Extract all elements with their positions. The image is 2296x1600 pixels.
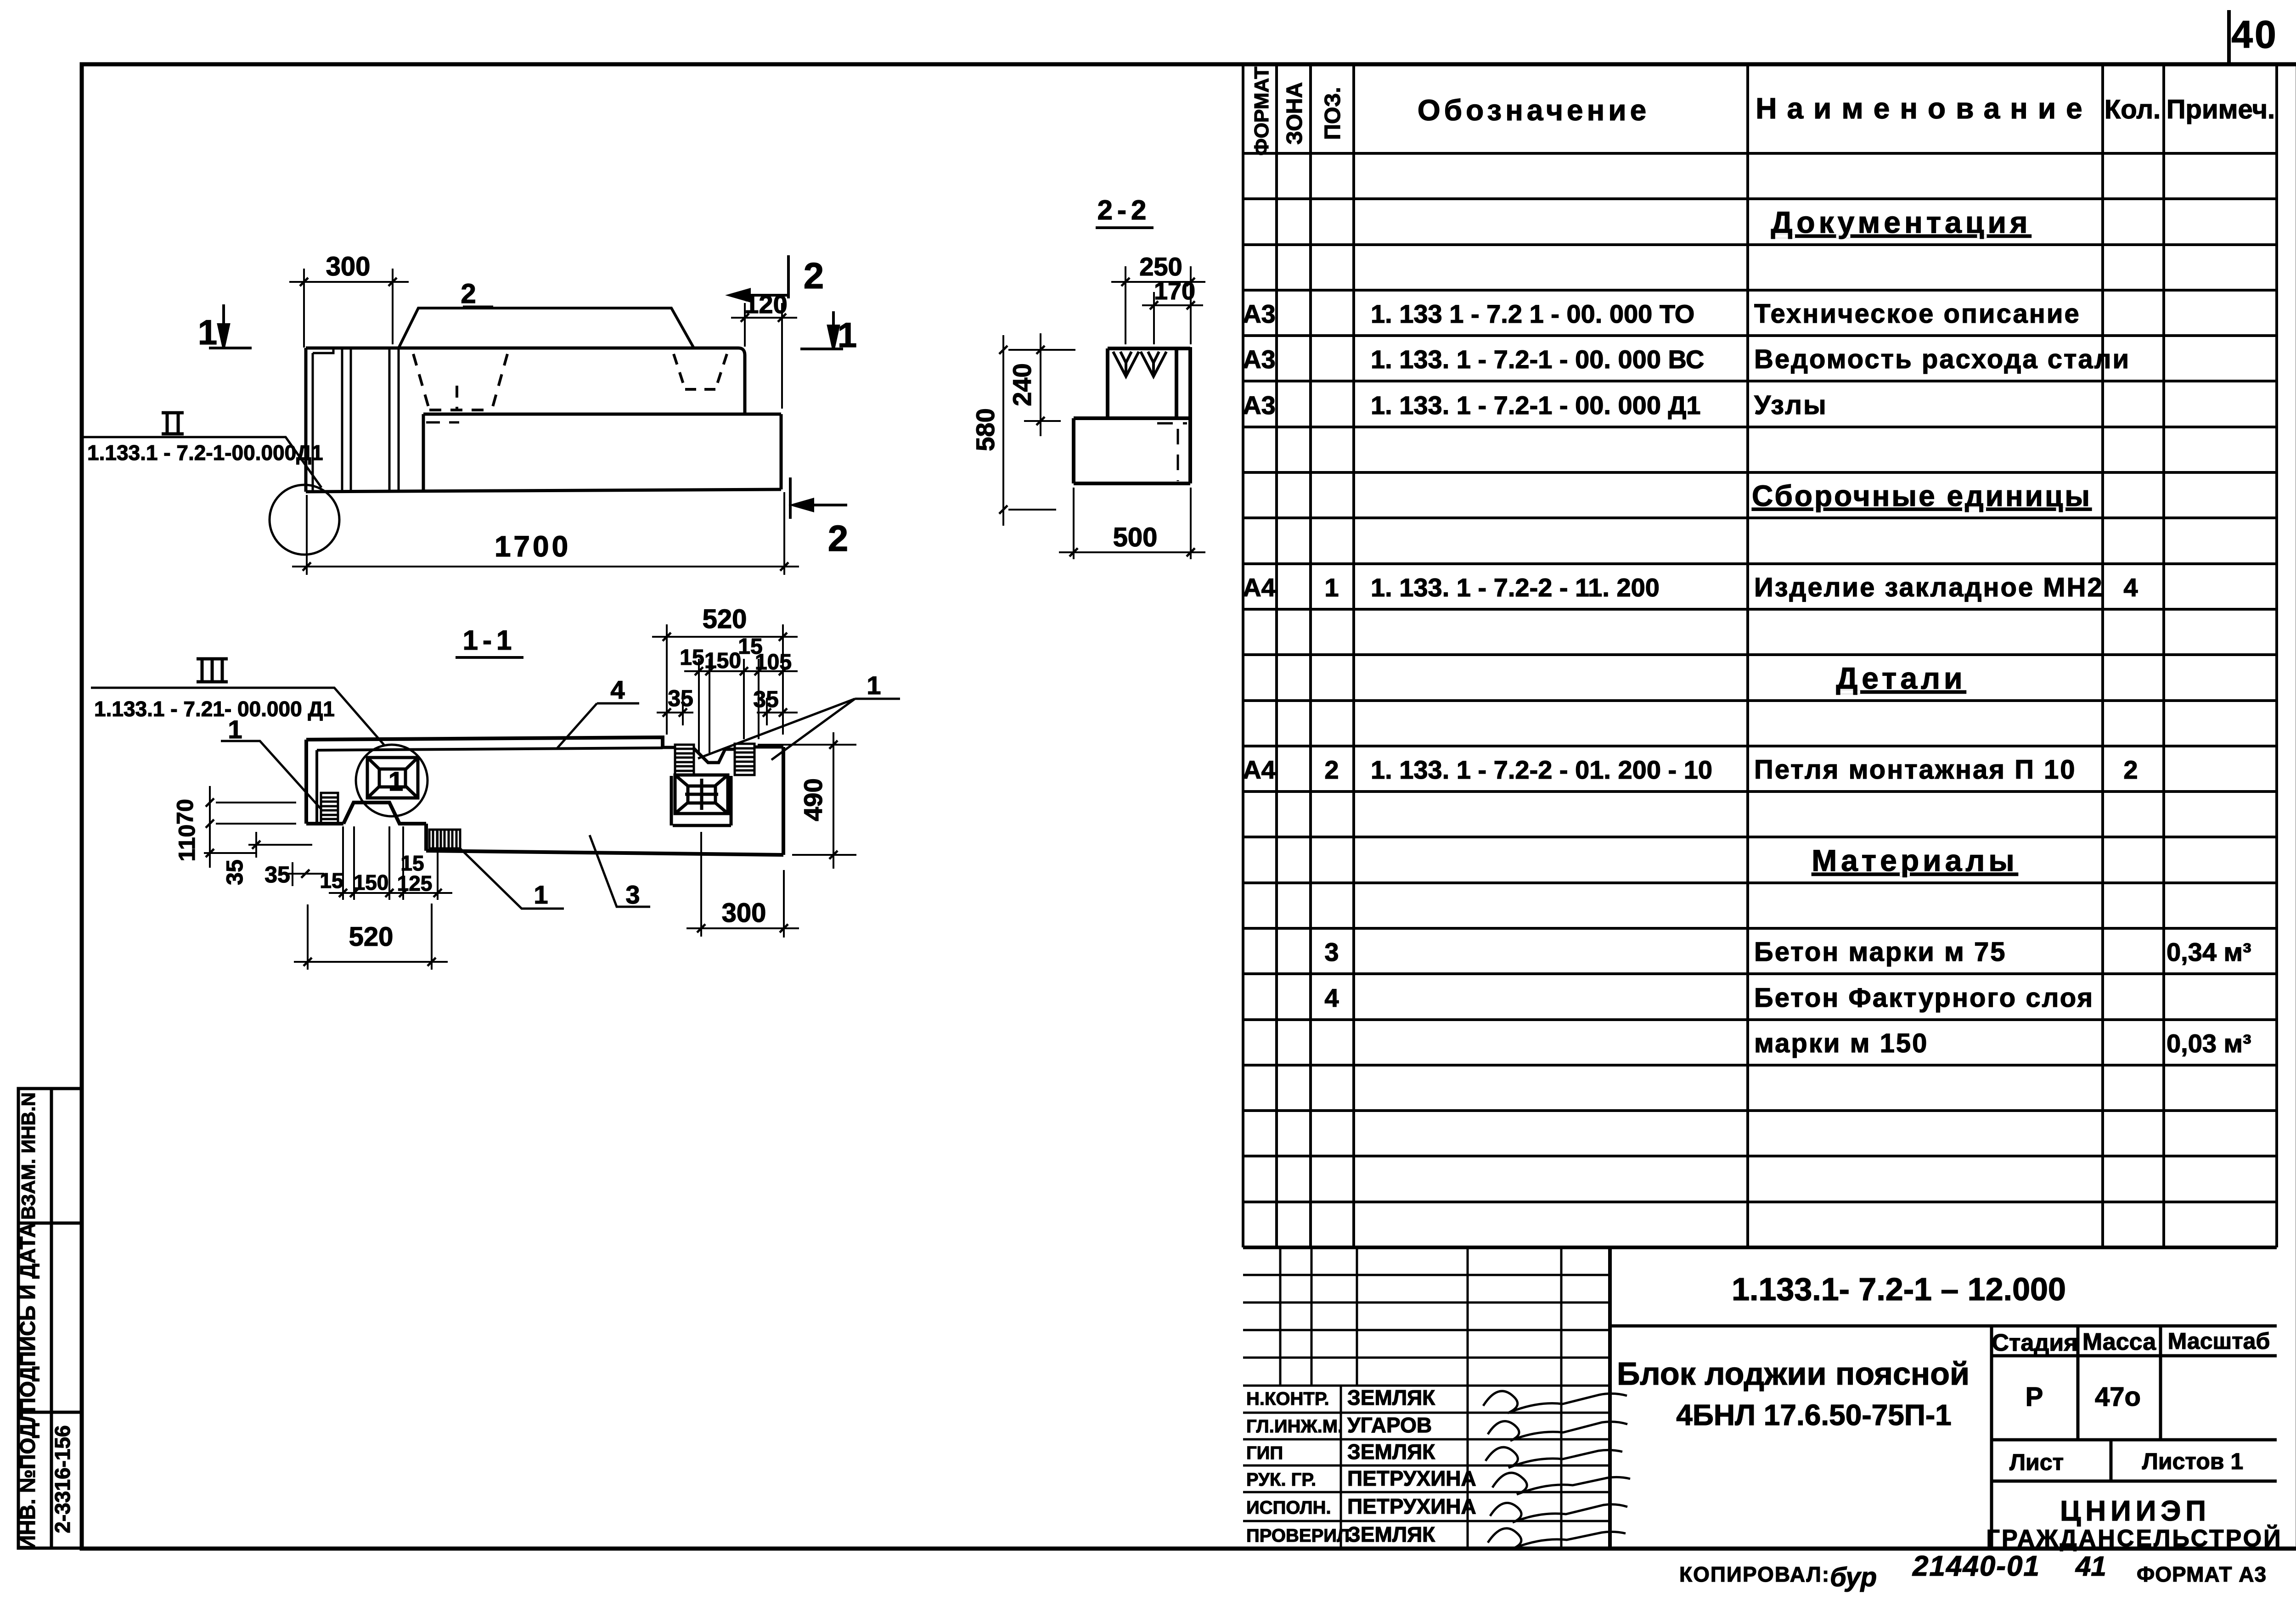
dim 120 top right	[731, 303, 797, 409]
envelope symbol in right support	[675, 775, 728, 814]
detail label II with designation	[162, 413, 184, 434]
dims 35 35 of 1-1 right	[657, 698, 798, 725]
svg-text:0,03 м³: 0,03 м³	[2167, 1029, 2251, 1058]
hidden dovetail notch right (dashed)	[674, 354, 727, 389]
section mark 1 left	[209, 304, 252, 348]
signature block grid	[1243, 1247, 1610, 1548]
svg-text:Изделие закладное МН2: Изделие закладное МН2	[1754, 573, 2104, 602]
svg-text:Документация: Документация	[1771, 205, 2031, 239]
elevation top trapezoid (facture layer)	[399, 308, 694, 348]
svg-text:бур: бур	[1830, 1562, 1877, 1592]
svg-text:300: 300	[722, 898, 766, 928]
svg-text:ПЕТРУХИНА: ПЕТРУХИНА	[1347, 1494, 1476, 1518]
svg-text:Ведомость расхода стали: Ведомость расхода стали	[1754, 344, 2130, 374]
svg-text:ПОЗ.: ПОЗ.	[1321, 87, 1345, 140]
svg-text:250: 250	[1139, 252, 1182, 281]
svg-text:21440-01: 21440-01	[1912, 1550, 2040, 1582]
svg-text:Петля монтажная П 10: Петля монтажная П 10	[1754, 755, 2077, 785]
svg-text:РУК. ГР.: РУК. ГР.	[1246, 1470, 1316, 1490]
svg-text:1. 133. 1 - 7.2-1 - 00. 000 ВС: 1. 133. 1 - 7.2-1 - 00. 000 ВС	[1371, 345, 1704, 374]
svg-text:15: 15	[320, 869, 343, 893]
svg-text:ЗЕМЛЯК: ЗЕМЛЯК	[1347, 1522, 1435, 1546]
svg-text:1: 1	[867, 671, 881, 700]
svg-text:41: 41	[2075, 1551, 2106, 1582]
section mark 2 bottom	[790, 477, 847, 519]
svg-text:Н.КОНТР.: Н.КОНТР.	[1246, 1389, 1329, 1409]
signatures squiggles	[1483, 1391, 1630, 1549]
svg-text:2: 2	[828, 518, 849, 559]
svg-text:ГЛ.ИНЖ.М.: ГЛ.ИНЖ.М.	[1246, 1416, 1343, 1437]
svg-text:Масштаб: Масштаб	[2168, 1328, 2270, 1354]
svg-text:1. 133. 1 - 7.2-2 - 11. 200: 1. 133. 1 - 7.2-2 - 11. 200	[1371, 573, 1660, 602]
svg-text:520: 520	[349, 922, 394, 952]
svg-text:4: 4	[1324, 983, 1339, 1012]
svg-text:ФОРМАТ А3: ФОРМАТ А3	[2137, 1562, 2267, 1586]
embedded plate MN2 top-left in 1-1 (hatched)	[321, 793, 338, 824]
svg-text:Бетон марки м 75: Бетон марки м 75	[1754, 937, 2007, 967]
spec table grid	[1243, 64, 2277, 1247]
svg-text:520: 520	[703, 604, 747, 634]
dim 490 right of 1-1	[758, 732, 856, 869]
svg-text:3: 3	[1324, 938, 1339, 966]
svg-text:1. 133. 1 - 7.2-2 - 01. 200 -: 1. 133. 1 - 7.2-2 - 01. 200 - 10	[1371, 755, 1712, 784]
dim 300 bottom right of 1-1	[687, 832, 799, 938]
svg-text:Узлы: Узлы	[1754, 390, 1828, 420]
embedded plate MN2 right-2 (hatched)	[735, 744, 754, 775]
embedded plate MN2 bottom (hatched)	[429, 830, 460, 848]
svg-text:1: 1	[388, 767, 403, 797]
svg-text:1-1: 1-1	[463, 625, 517, 656]
svg-text:170: 170	[1154, 277, 1195, 305]
title area grid	[1610, 1326, 2277, 1548]
svg-text:2: 2	[804, 255, 824, 296]
svg-text:ПРОВЕРИЛ: ПРОВЕРИЛ	[1246, 1526, 1350, 1546]
svg-text:1.133.1- 7.2-1 – 12.000: 1.133.1- 7.2-1 – 12.000	[1732, 1271, 2066, 1307]
svg-text:105: 105	[755, 650, 792, 674]
dim 15 150 15 105 of 1-1 right	[684, 659, 798, 753]
dim 240 of 2-2	[1024, 333, 1061, 436]
svg-text:ЗЕМЛЯК: ЗЕМЛЯК	[1347, 1386, 1435, 1409]
right support profile of 1-1	[663, 747, 783, 825]
svg-text:ИСПОЛН.: ИСПОЛН.	[1246, 1498, 1331, 1518]
page number 40 box tick	[2229, 10, 2296, 1588]
svg-text:150: 150	[704, 649, 741, 673]
svg-text:ИНВ. №ПОДЛ: ИНВ. №ПОДЛ	[16, 1408, 39, 1550]
svg-text:ЦНИИЭП: ЦНИИЭП	[2060, 1495, 2211, 1527]
left stamp boxes	[18, 1089, 82, 1548]
svg-text:марки м 150: марки м 150	[1754, 1028, 1928, 1058]
dims 35 35 left of 1-1	[248, 832, 324, 886]
svg-text:А4: А4	[1243, 573, 1276, 602]
title block outer	[1243, 1247, 2277, 1548]
dim 1700 bottom	[292, 492, 799, 575]
svg-text:2: 2	[461, 278, 476, 309]
svg-text:1.133.1 - 7.2-1-00.000Д1: 1.133.1 - 7.2-1-00.000Д1	[87, 441, 323, 465]
svg-text:Лист: Лист	[2009, 1449, 2064, 1475]
dim 250 of 2-2	[1111, 266, 1205, 344]
svg-text:Бетон Фактурного слоя: Бетон Фактурного слоя	[1754, 983, 2094, 1013]
svg-text:ЗЕМЛЯК: ЗЕМЛЯК	[1347, 1440, 1435, 1464]
svg-text:125: 125	[397, 871, 433, 895]
hidden dovetail notch left (dashed)	[413, 354, 507, 411]
dim 170 of 2-2	[1142, 292, 1203, 344]
ledge hidden step (dashed)	[426, 421, 459, 424]
svg-text:70: 70	[172, 799, 198, 825]
svg-text:240: 240	[1007, 363, 1036, 406]
svg-text:15: 15	[680, 646, 704, 670]
dim 580 of 2-2	[999, 335, 1075, 526]
svg-text:Листов 1: Листов 1	[2142, 1448, 2243, 1474]
dim 70 110 left of 1-1	[204, 786, 296, 868]
detail circle II	[270, 485, 339, 555]
dim 300 top left	[289, 269, 409, 348]
section 1-1 top inner line (facture layer bottom)	[317, 748, 663, 824]
svg-text:Р: Р	[2026, 1382, 2043, 1412]
svg-text:300: 300	[326, 252, 371, 281]
svg-text:2-2: 2-2	[1097, 195, 1151, 225]
svg-text:1: 1	[838, 316, 857, 355]
section 1-1 outline	[306, 737, 783, 855]
svg-text:А4: А4	[1243, 755, 1276, 784]
svg-text:ГИП: ГИП	[1246, 1443, 1283, 1463]
svg-text:4: 4	[610, 675, 625, 704]
dim 520 top right of 1-1	[652, 624, 798, 735]
svg-text:35: 35	[668, 685, 693, 711]
svg-text:1.133.1 - 7.21- 00.000 Д1: 1.133.1 - 7.21- 00.000 Д1	[94, 697, 335, 721]
svg-text:2-3316-156: 2-3316-156	[51, 1425, 74, 1533]
svg-text:35: 35	[753, 686, 779, 712]
svg-text:ВЗАМ. ИНВ.N: ВЗАМ. ИНВ.N	[17, 1092, 39, 1220]
svg-text:Наименование: Наименование	[1756, 92, 2093, 125]
svg-text:1: 1	[1324, 573, 1339, 602]
svg-text:ФОРМАТ: ФОРМАТ	[1250, 67, 1273, 156]
svg-text:Блок лоджии поясной: Блок лоджии поясной	[1617, 1356, 1970, 1392]
elevation inner wall lines	[313, 348, 399, 491]
svg-text:Материалы: Материалы	[1812, 843, 2018, 877]
svg-text:110: 110	[174, 825, 200, 862]
detail circle with envelope (left)	[356, 745, 428, 816]
svg-text:490: 490	[799, 778, 827, 821]
embedded plate MN2 right-1 (hatched)	[675, 745, 694, 775]
svg-text:Масса: Масса	[2082, 1329, 2156, 1355]
hidden lines in 2-2 (dashed)	[1157, 423, 1187, 481]
section mark 2 top	[730, 255, 788, 301]
svg-text:2: 2	[2123, 755, 2138, 784]
svg-text:УГАРОВ: УГАРОВ	[1347, 1413, 1432, 1437]
svg-text:1: 1	[198, 313, 217, 352]
svg-text:ГРАЖДАНСЕЛЬСТРОЙ: ГРАЖДАНСЕЛЬСТРОЙ	[1986, 1525, 2283, 1552]
svg-text:3: 3	[625, 880, 640, 909]
svg-text:Обозначение: Обозначение	[1418, 94, 1650, 127]
svg-text:40: 40	[2231, 13, 2278, 56]
dim 500 of 2-2	[1059, 488, 1205, 559]
dim 15 150 15 125 left of 1-1	[329, 826, 452, 900]
svg-text:А3: А3	[1243, 299, 1276, 328]
elevation view outline	[306, 348, 781, 492]
svg-text:1. 133. 1 - 7.2-1 - 00. 000 Д1: 1. 133. 1 - 7.2-1 - 00. 000 Д1	[1371, 391, 1701, 420]
section 2-2 outline	[1074, 347, 1190, 483]
svg-text:47о: 47о	[2095, 1382, 2141, 1412]
svg-text:А3: А3	[1243, 345, 1276, 374]
svg-text:4: 4	[2123, 573, 2138, 602]
svg-text:ЗОНА: ЗОНА	[1283, 82, 1307, 145]
svg-text:Детали: Детали	[1836, 661, 1966, 695]
svg-text:КОПИРОВАЛ:: КОПИРОВАЛ:	[1679, 1562, 1830, 1586]
svg-text:ПЕТРУХИНА: ПЕТРУХИНА	[1347, 1466, 1476, 1490]
svg-text:ПОДПИСЬ И ДАТА: ПОДПИСЬ И ДАТА	[16, 1223, 39, 1413]
svg-text:150: 150	[354, 870, 389, 894]
svg-text:1: 1	[534, 880, 548, 909]
svg-text:Сборочные единицы: Сборочные единицы	[1752, 479, 2092, 512]
section mark 1 right	[800, 311, 843, 349]
svg-text:1. 133 1 - 7.2 1 - 00. 000 ТО: 1. 133 1 - 7.2 1 - 00. 000 ТО	[1371, 299, 1694, 328]
dim 520 bottom left of 1-1	[294, 904, 448, 970]
svg-text:Кол.: Кол.	[2105, 95, 2161, 124]
svg-text:1: 1	[228, 715, 242, 744]
svg-text:Примеч.: Примеч.	[2167, 95, 2275, 124]
label III with designation	[197, 659, 228, 682]
svg-text:500: 500	[1113, 522, 1158, 552]
svg-text:А3: А3	[1243, 391, 1276, 420]
svg-text:35: 35	[222, 859, 248, 885]
svg-text:2: 2	[1324, 755, 1339, 784]
svg-text:35: 35	[264, 862, 290, 887]
svg-text:Стадия: Стадия	[1992, 1330, 2077, 1356]
svg-text:4БНЛ 17.6.50-75П-1: 4БНЛ 17.6.50-75П-1	[1676, 1398, 1951, 1432]
svg-text:1700: 1700	[495, 530, 571, 563]
dovetail chevrons in 2-2 rib top	[1113, 352, 1166, 376]
svg-text:0,34 м³: 0,34 м³	[2167, 938, 2251, 966]
svg-text:580: 580	[971, 408, 1000, 451]
svg-text:Техническое описание: Техническое описание	[1754, 299, 2081, 329]
